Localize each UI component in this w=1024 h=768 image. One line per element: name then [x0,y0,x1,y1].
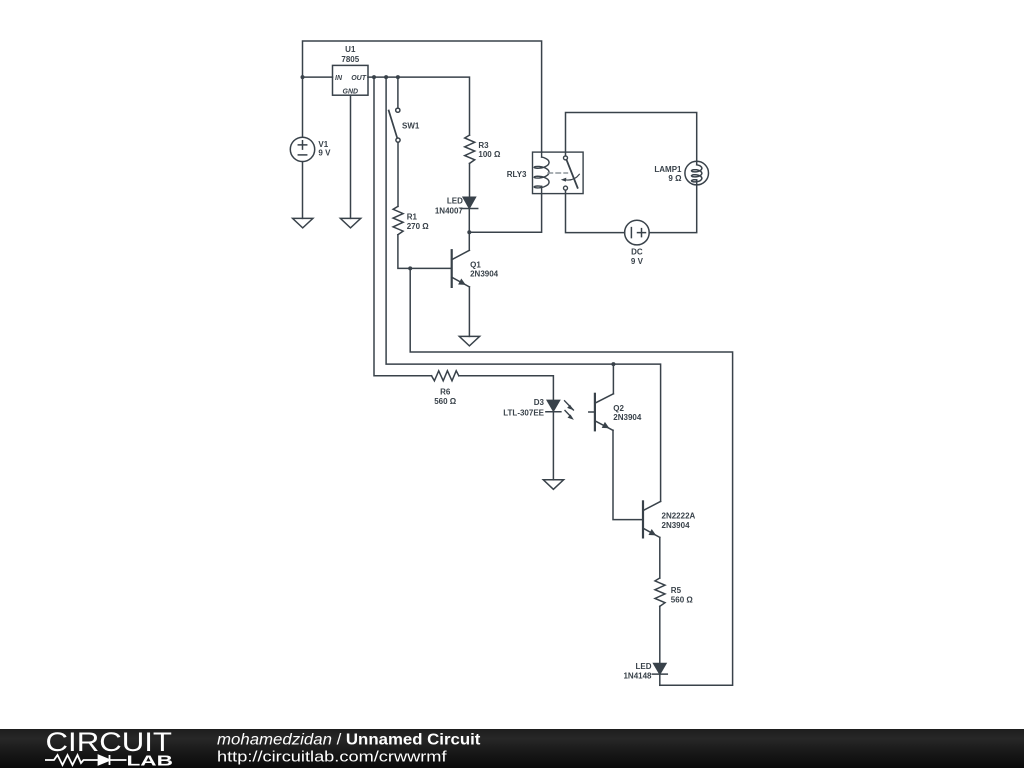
ground (D3) [543,480,563,490]
relay RLY3 [533,152,584,194]
svg-text:100 Ω: 100 Ω [478,150,501,159]
svg-text:7805: 7805 [341,55,359,64]
svg-text:LAMP1: LAMP1 [654,165,682,174]
svg-text:9 V: 9 V [631,257,644,266]
resistor R5 [655,578,665,606]
wire Q3 emitter to R5 [659,537,661,578]
ground (Q1 emitter) [459,336,479,346]
wire DC to LAMP1 bottom [649,185,697,233]
wire SW1 to R1 [397,142,399,206]
resistor R3 [465,135,475,163]
wire U1 OUT to R3 top [368,77,470,135]
lamp LAMP1 [685,161,709,185]
wire Q2 emitter to Q3 base [613,430,643,519]
wire LED1 to node [468,209,470,233]
wire OUT branch to SW1 [397,77,399,108]
svg-text:U1: U1 [345,45,356,54]
svg-text:Q1: Q1 [470,260,481,269]
wire node to Q2 collector [612,364,614,394]
svg-text:R6: R6 [440,388,451,397]
wire V1 to U1 IN [303,76,333,78]
wire node to Q1 collector [468,232,470,250]
wire U1 GND to ground [350,95,352,218]
ground (U1) [340,218,360,228]
wire OUT branch to R6 [374,77,432,376]
svg-text:SW1: SW1 [402,122,420,131]
svg-text:GND: GND [343,89,359,96]
svg-text:OUT: OUT [351,75,367,82]
source DC 9V [625,220,650,245]
switch SW1 [389,108,400,142]
svg-text:Q2: Q2 [613,404,624,413]
diode D3 LTL-307EE [546,400,574,420]
svg-text:1N4148: 1N4148 [623,672,652,681]
node OUT c [396,75,400,79]
resistor R1 [393,206,403,234]
svg-text:R5: R5 [671,586,682,595]
diode LED (1N4007) [461,197,478,208]
node OUT a [372,75,376,79]
node V1/U1 IN [301,75,305,79]
svg-text:LED: LED [447,196,463,205]
svg-text:560 Ω: 560 Ω [671,596,694,605]
svg-text:LTL-307EE: LTL-307EE [503,408,544,417]
footer bar [0,729,1024,768]
logo resistor-diode glyph [45,755,127,765]
svg-text:mohamedzidan / Unnamed Circuit: mohamedzidan / Unnamed Circuit [217,731,480,748]
regulator U1 box [333,65,369,95]
svg-text:LAB: LAB [127,753,174,768]
wire D3 to ground [552,412,554,480]
svg-text:2N3904: 2N3904 [613,413,642,422]
svg-text:V1: V1 [318,140,328,149]
svg-text:RLY3: RLY3 [507,170,527,179]
diode LED (1N4148) [652,664,667,675]
wire R5 to LED4 [659,606,661,663]
wire Q1 emitter to ground [468,287,470,337]
resistor R6 [432,371,459,381]
svg-text:DC: DC [631,248,643,257]
svg-text:560 Ω: 560 Ω [434,397,457,406]
wire R3 to LED1 [469,163,471,197]
svg-text:IN: IN [335,75,343,82]
voltage source V1 [290,137,314,161]
transistor Q3 2N2222A [643,501,661,537]
node Q1 base [408,266,412,270]
wire LED4 to bottom rail [659,674,661,686]
node OUT b [384,75,388,79]
svg-text:270 Ω: 270 Ω [407,222,430,231]
svg-text:http://circuitlab.com/crwwrmf: http://circuitlab.com/crwwrmf [217,749,448,766]
transistor Q2 2N3904 [589,394,614,431]
svg-text:R3: R3 [478,141,489,150]
svg-text:1N4007: 1N4007 [435,206,464,215]
wire R1 to Q1 base [398,235,452,269]
svg-text:LED: LED [636,662,652,671]
svg-text:D3: D3 [534,398,545,407]
wire base node loop to LED4 bottom [410,268,732,685]
node junction dots [301,75,616,366]
wire R6 to D3 [459,376,554,401]
transistor Q1 2N3904 [452,250,470,287]
wire relay contact top to LAMP1 [566,113,697,162]
wire top rail V1 to relay coil [303,41,542,152]
svg-text:9 Ω: 9 Ω [668,174,682,183]
wire relay contact bottom to DC [566,190,625,232]
node Q2 collector rail [611,362,615,366]
wire V1 to ground [302,162,304,219]
svg-text:2N3904: 2N3904 [470,270,499,279]
wire node to relay coil bottom [469,194,541,233]
svg-text:2N2222A: 2N2222A [662,512,696,521]
wire OUT branch to Q3 collector rail [386,77,660,501]
svg-text:9 V: 9 V [318,149,331,158]
node LED1/relay coil [467,230,471,234]
ground (V1) [293,218,313,228]
svg-text:2N3904: 2N3904 [662,521,691,530]
svg-text:R1: R1 [407,213,418,222]
